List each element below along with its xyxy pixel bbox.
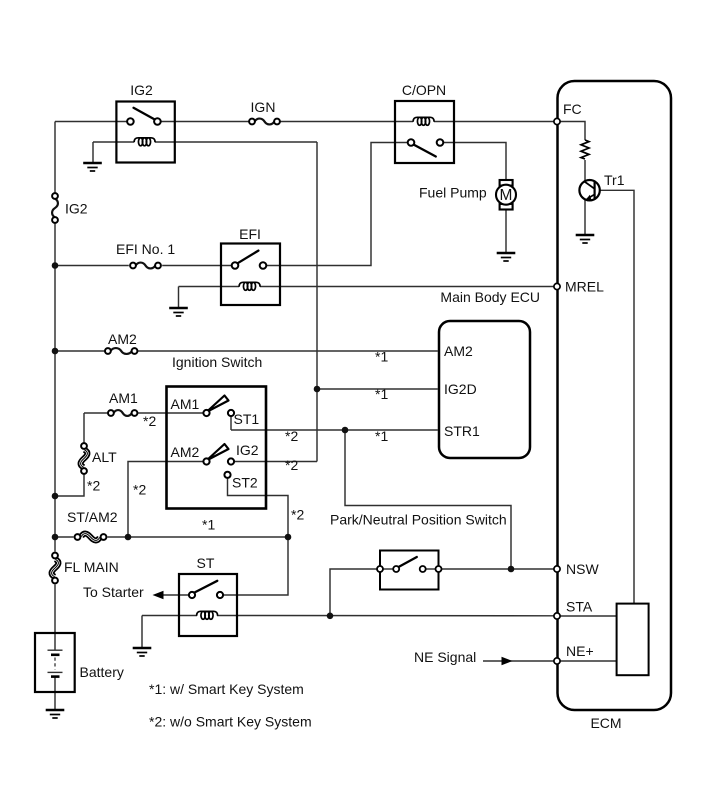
svg-text:*2: *2 [285,457,298,473]
svg-text:IGN: IGN [251,99,276,115]
svg-text:EFI No. 1: EFI No. 1 [116,241,175,257]
svg-text:ECM: ECM [590,715,621,731]
svg-text:ST1: ST1 [234,411,260,427]
svg-text:To Starter: To Starter [83,584,144,600]
svg-text:IG2: IG2 [236,442,259,458]
svg-text:IG2: IG2 [130,82,153,98]
svg-text:*1: *1 [202,517,215,533]
svg-text:C/OPN: C/OPN [402,82,446,98]
svg-text:AM1: AM1 [109,390,138,406]
svg-text:Main Body ECU: Main Body ECU [440,289,540,305]
svg-text:*1: *1 [375,349,388,365]
svg-text:Park/Neutral Position Switch: Park/Neutral Position Switch [330,512,507,528]
svg-text:STR1: STR1 [444,423,480,439]
svg-text:IG2: IG2 [65,201,88,217]
svg-text:NE+: NE+ [566,643,594,659]
svg-text:ST2: ST2 [232,475,258,491]
svg-text:IG2D: IG2D [444,381,477,397]
svg-text:Tr1: Tr1 [604,172,625,188]
svg-text:*1: *1 [375,386,388,402]
svg-text:FC: FC [563,101,582,117]
svg-text:*2: *2 [285,428,298,444]
svg-text:NSW: NSW [566,561,599,577]
svg-text:*1: *1 [375,428,388,444]
svg-text:*1: w/ Smart Key System: *1: w/ Smart Key System [149,681,304,697]
svg-text:AM2: AM2 [444,343,473,359]
svg-text:M: M [500,187,513,204]
svg-text:MREL: MREL [565,279,604,295]
svg-text:AM1: AM1 [171,396,200,412]
svg-text:ST: ST [197,555,215,571]
svg-text:STA: STA [566,599,593,615]
svg-text:AM2: AM2 [108,331,137,347]
svg-text:Battery: Battery [80,664,124,680]
svg-text:Ignition Switch: Ignition Switch [172,354,262,370]
svg-text:EFI: EFI [239,226,261,242]
svg-text:NE Signal: NE Signal [414,649,476,665]
svg-text:FL MAIN: FL MAIN [64,559,119,575]
svg-text:*2: *2 [133,482,146,498]
svg-text:*2: w/o Smart Key System: *2: w/o Smart Key System [149,714,312,730]
svg-text:*2: *2 [87,478,100,494]
svg-text:AM2: AM2 [171,444,200,460]
svg-text:*2: *2 [291,507,304,523]
svg-text:*2: *2 [143,413,156,429]
svg-text:ALT: ALT [92,449,117,465]
svg-text:ST/AM2: ST/AM2 [67,509,118,525]
svg-text:Fuel Pump: Fuel Pump [419,185,487,201]
